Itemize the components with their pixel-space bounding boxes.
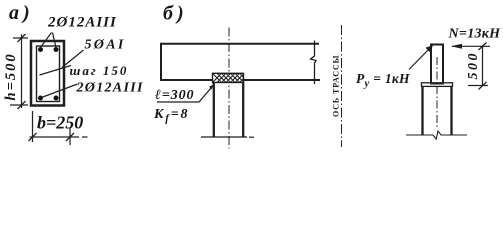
svg-text:ℓ=300: ℓ=300: [155, 88, 194, 103]
column section outer rect: [31, 41, 64, 106]
right column shaft: [423, 87, 452, 135]
svg-text:500: 500: [466, 51, 481, 80]
dimension 500: [468, 43, 488, 90]
right column centre line: [436, 57, 438, 128]
rebar dots: [38, 47, 43, 52]
axis of route line: [341, 25, 343, 147]
svg-text:ОСЬ ТРАССЫ: ОСЬ ТРАССЫ: [332, 55, 341, 117]
leader shag: [40, 66, 72, 76]
svg-text:а): а): [9, 2, 34, 24]
leader to top bars: [41, 33, 57, 48]
leader to bottom bars: [42, 84, 78, 98]
right column break bottom: [406, 131, 467, 139]
svg-text:N=13кН: N=13кН: [448, 27, 502, 42]
svg-text:2Ø12АIII: 2Ø12АIII: [47, 15, 117, 31]
stirrup inner rect: [37, 46, 60, 102]
beam break line: [311, 41, 317, 85]
dimension h=500: [10, 34, 28, 109]
svg-text:h=500: h=500: [3, 52, 19, 100]
svg-text:Кf=8: Кf=8: [153, 107, 189, 125]
svg-text:б): б): [163, 3, 188, 25]
leader l=300: [157, 85, 214, 103]
svg-text:b=250: b=250: [37, 113, 83, 133]
force N arrow: [451, 44, 490, 49]
column shaft: [214, 83, 243, 137]
cap plate: [422, 83, 453, 87]
beam outline: [160, 43, 320, 81]
leader to stirrup: [62, 50, 84, 68]
dimension b=250: [29, 111, 88, 145]
svg-text:5ØАI: 5ØАI: [85, 38, 126, 53]
svg-text:2Ø12АIII: 2Ø12АIII: [76, 81, 144, 96]
force Py arrow: [409, 45, 433, 70]
column centre line: [228, 28, 230, 149]
svg-text:шаг 150: шаг 150: [70, 63, 129, 78]
column break bottom: [201, 136, 247, 138]
stand post: [431, 45, 443, 84]
bearing pad hatched: [213, 73, 244, 82]
